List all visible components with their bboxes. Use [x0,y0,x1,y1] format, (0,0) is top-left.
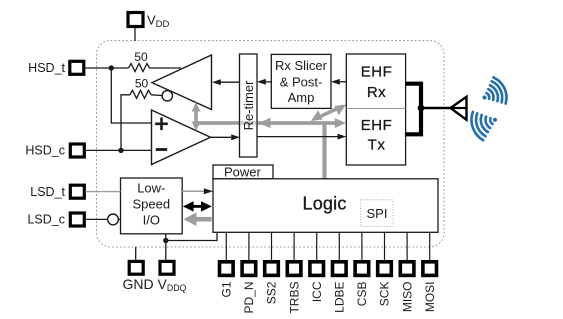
EHF Rx / EHF Tx block [346,54,405,165]
label G1 [220,281,234,297]
svg-text:SS2: SS2 [265,281,279,304]
Rx Slicer and Post-Amp block [271,54,331,108]
blue EHF waves lower (incoming) [471,112,497,140]
gray vertical double arrow between driver and comparator [192,102,201,131]
arrow Low-Speed I/O to Logic [182,188,213,194]
label GND [123,276,154,292]
label MISO [400,282,414,313]
pad MISO [400,262,414,276]
svg-text:Logic: Logic [302,193,346,213]
svg-text:PD_N: PD_N [242,282,256,314]
svg-text:Re-timer: Re-timer [241,80,256,131]
svg-text:Rx Slicer: Rx Slicer [275,58,328,73]
pad ICC [310,262,324,276]
label LSD_t [30,185,65,199]
svg-text:I/O: I/O [143,212,160,227]
svg-text:GND: GND [123,276,154,292]
pad LSD_t [70,185,84,198]
pad HSD_c [70,144,84,157]
double arrow Low-Speed I/O and Logic [183,201,212,211]
svg-text:50: 50 [135,77,149,91]
pad PD_N [242,262,256,276]
Low-Speed I/O block [121,178,183,234]
svg-text:Power: Power [224,164,262,179]
output driver U1 (left-pointing buffer) [152,55,212,110]
svg-text:50: 50 [134,50,148,64]
svg-text:HSD_t: HSD_t [28,61,65,75]
svg-text:MOSI: MOSI [423,282,437,313]
label R2 value 50 [135,77,149,91]
svg-text:CSB: CSB [355,282,369,307]
pad HSD_t [70,61,84,74]
svg-text:LSD_t: LSD_t [30,185,65,199]
pad TRBS [287,262,301,276]
gray arrow Logic to Low-Speed I/O [184,212,212,226]
resistor R1 50 ohm [129,64,150,72]
label HSD_c [25,144,65,158]
pad LDBE [333,262,347,276]
chip dashed outline [97,41,445,248]
comparator U2 (input receiver) [152,110,211,165]
svg-text:Amp: Amp [288,90,315,105]
svg-text:LDBE: LDBE [333,282,347,313]
blue EHF waves upper (outgoing) [482,77,506,103]
wire Low-Speed I/O to VDDQ and Logic [166,232,217,259]
wire LSD_t to Low-Speed I/O (gray) [86,191,121,193]
svg-text:TRBS: TRBS [287,282,301,314]
pad LSD_c [70,213,84,226]
junction node antenna feed [418,105,425,112]
gray vertical line EHF junction to Logic [322,123,326,179]
wire HSD_t to junction [85,67,129,69]
comparator minus sign [156,148,167,151]
svg-text:EHF: EHF [361,117,393,134]
label LDBE [333,282,347,313]
label HSD_t [28,61,65,75]
inversion bubble LSD_c [108,214,119,225]
label CSB [355,282,369,307]
wire VDD stub [134,28,136,42]
pad MOSI [423,262,437,276]
svg-text:LSD_c: LSD_c [27,212,65,226]
svg-text:Rx: Rx [367,84,386,101]
label LSD_c [27,212,65,226]
label ICC [310,281,324,302]
svg-text:SCK: SCK [378,282,392,307]
wire junction up to R2 [121,95,130,151]
pad CSB [355,262,369,276]
gray loopback line from EHF to driver (horizontal) [196,121,337,125]
label TRBS [287,282,301,314]
pad VDD [128,13,143,27]
svg-text:SPI: SPI [367,206,388,221]
wire comparator output to Re-timer with arrow [211,134,241,140]
svg-text:& Post-: & Post- [280,75,323,90]
svg-text:MISO: MISO [400,282,414,313]
pad SS2 [265,262,279,276]
wire R2 to bubble [151,94,162,97]
pad G1 [220,262,234,276]
svg-text:Tx: Tx [368,137,386,154]
label VDDQ [158,276,187,293]
arrow Rx Slicer to Re-timer [257,79,271,85]
inversion bubble on driver complement output [162,91,172,101]
wires Logic to bottom pads [226,232,429,261]
label VDD [147,13,170,31]
svg-text:EHF: EHF [361,63,393,80]
arrow Re-timer to driver input [212,79,240,85]
wire GND stub [135,247,137,260]
gray arrowhead pointing left near Re-timer right [259,118,271,128]
gray diagonal double arrow Logic to EHF Rx [311,105,346,122]
label SCK [378,282,392,307]
svg-text:G1: G1 [220,281,234,297]
thick wire EHF Rx output [406,84,421,135]
wire junction down to comparator plus input [111,68,151,123]
resistor R2 50 ohm [130,90,151,98]
wire to antenna [421,107,466,110]
Re-timer block [240,54,258,157]
junction node VDDQ [163,238,168,243]
wire LSD_c to bubble [86,218,108,220]
SPI block [361,200,393,227]
arrow EHF Rx to Rx Slicer [331,79,346,85]
comparator plus sign [155,118,168,131]
antenna A1 (horn symbol) [451,97,467,120]
label MOSI [423,282,437,313]
svg-text:ICC: ICC [310,281,324,302]
label SS2 [265,281,279,304]
label PD_N [242,282,256,314]
pad SCK [378,262,392,276]
wire HSD_c to comparator minus input [86,149,152,151]
gray arrowhead into EHF Tx [335,118,346,128]
pad GND [129,261,143,274]
Logic block [213,179,438,233]
svg-text:Low-: Low- [137,180,165,195]
wire Re-timer to EHF Tx with arrow [257,134,346,140]
junction node HSD_c [118,148,123,153]
svg-text:HSD_c: HSD_c [25,144,65,158]
wire bubble to Low-Speed I/O [118,218,120,220]
pad VDDQ [160,261,174,274]
wire R1 to driver edge [150,67,182,69]
label R1 value 50 [134,50,148,64]
Power block [213,164,273,179]
junction node HSD_t [109,65,114,70]
svg-text:Speed: Speed [133,196,171,211]
